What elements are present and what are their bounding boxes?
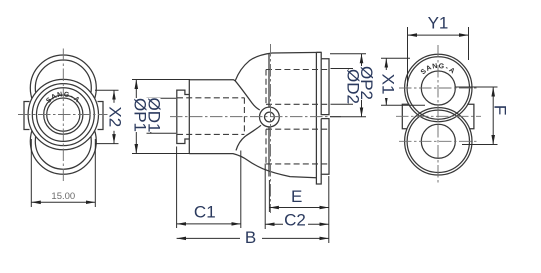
OP2 ext top (330, 53, 366, 55)
bottom port outer circle (30, 108, 96, 174)
OP1 ext bottom (132, 153, 190, 155)
hidden dashed lines middle view (177, 70, 329, 164)
svg-text:ØD2: ØD2 (344, 69, 363, 104)
OD2 ext bottom (331, 103, 354, 105)
C1 ext left (176, 147, 178, 229)
bottom circle bore (421, 124, 455, 158)
vertical centerline (62, 49, 64, 183)
bottom branch bore end (265, 129, 267, 164)
bottom branch bore bottom (266, 163, 329, 165)
svg-text:B: B (245, 228, 256, 247)
right tab right view (467, 104, 474, 129)
X1 ext top (381, 57, 410, 59)
top collar tube (321, 59, 329, 115)
label OP1 (131, 98, 150, 132)
Y1 dim line (408, 34, 469, 36)
OP1 dim line (135, 80, 137, 154)
B ext right (328, 176, 330, 243)
OD1 dim line (150, 98, 152, 133)
F dim line (492, 87, 494, 145)
X1 ext bottom (381, 104, 425, 106)
middle view centerlines (170, 44, 341, 213)
F ext bottom (462, 144, 498, 146)
C1 dim line (177, 223, 241, 225)
top branch bore end (265, 70, 267, 105)
svg-text:C1: C1 (194, 203, 216, 222)
SANG-A arc text right view (420, 63, 456, 76)
label OP2 (357, 66, 376, 100)
OD1 ext top (147, 97, 177, 99)
center circle outer (260, 107, 280, 127)
bore ring inner (47, 98, 80, 131)
X2 ext bottom (95, 143, 119, 145)
svg-text:X1: X1 (379, 74, 398, 95)
svg-text:ØD1: ØD1 (145, 98, 164, 133)
label B (240, 228, 262, 247)
OP2 ext bottom (330, 116, 366, 118)
stem bottom edge + curve to lower branch (189, 154, 316, 178)
band circle (32, 84, 94, 146)
SANG-A arc text left view (45, 91, 80, 105)
valley vertical edge lower (268, 127, 270, 177)
E dim line (269, 207, 328, 209)
svg-text:15.00: 15.00 (51, 191, 75, 202)
top circle outer (405, 54, 472, 121)
OP2 dim line (361, 54, 363, 117)
bottom collar tube (321, 119, 329, 175)
top circle chamfer (407, 57, 469, 119)
bulge boundary upper (235, 81, 260, 110)
C2 dim line (265, 223, 329, 225)
flange top right corner (316, 52, 321, 58)
15.00 ext left (30, 139, 32, 207)
C2 ext left (264, 164, 266, 230)
label X1 (379, 70, 398, 98)
bottom port inner circle (35, 113, 91, 169)
OD1 ext bottom (147, 132, 177, 134)
bulge boundary lower (236, 125, 261, 150)
left tab right view (402, 104, 409, 129)
collar left stem (177, 90, 190, 143)
flange plate (316, 52, 321, 184)
svg-text:Y1: Y1 (428, 14, 449, 33)
center circle inner (265, 112, 275, 122)
label OD2 (344, 69, 363, 104)
right tab (98, 102, 104, 130)
bottom circle outer (405, 108, 472, 175)
top circle bore (421, 71, 455, 105)
top port outer circle (30, 55, 96, 121)
OD2 dim line (348, 69, 350, 105)
OP1 ext top (132, 79, 190, 81)
stem top edge + curve to upper branch (189, 52, 321, 80)
X2 ext top (95, 89, 119, 91)
top port inner circle (35, 60, 91, 116)
label OD1 (145, 98, 164, 133)
X2 dim line (113, 90, 115, 143)
vertical centerline middle (270, 44, 272, 213)
X1 dim line (385, 58, 387, 105)
label F (491, 105, 510, 115)
body face left stem (188, 80, 190, 154)
B dim line (177, 237, 329, 239)
vertical centerline (437, 45, 439, 185)
bore ring outer (44, 95, 83, 134)
E ext left (268, 180, 270, 212)
collar circle (37, 88, 91, 142)
svg-text:C2: C2 (284, 211, 306, 230)
top circle horizontal centerline (399, 87, 477, 89)
svg-text:X2: X2 (106, 106, 125, 127)
body circle (white fill masks ports) (28, 79, 98, 149)
horizontal centerline middle (170, 116, 341, 118)
horizontal centerline (18, 114, 109, 116)
OD2 ext top (331, 68, 354, 70)
15.00 dim line (31, 201, 95, 203)
bottom circle chamfer (407, 110, 469, 172)
stem bore bottom (177, 133, 244, 135)
valley vertical edge upper (268, 54, 270, 107)
bottom circle horizontal centerline (399, 140, 477, 142)
C1 ext right (240, 151, 242, 229)
label C2 (283, 211, 308, 230)
right view centerlines (396, 45, 481, 185)
top branch bore bottom (266, 103, 329, 105)
top branch bore top (266, 69, 329, 71)
bottom branch bore top (266, 128, 329, 130)
Y1 ext left (407, 27, 409, 86)
middle horizontal centerline (396, 115, 481, 117)
left tab (24, 102, 30, 130)
svg-text:N: N (432, 63, 438, 71)
svg-text:F: F (491, 105, 510, 115)
Y1 ext right (468, 27, 470, 60)
stem bore top (177, 97, 244, 99)
stem bore end (243, 98, 245, 135)
dimension texts (51, 14, 509, 248)
15.00 ext right (94, 139, 96, 207)
svg-text:E: E (291, 187, 302, 206)
F ext top (455, 86, 498, 88)
label X2 (106, 103, 125, 131)
centerlines left view (18, 49, 109, 183)
